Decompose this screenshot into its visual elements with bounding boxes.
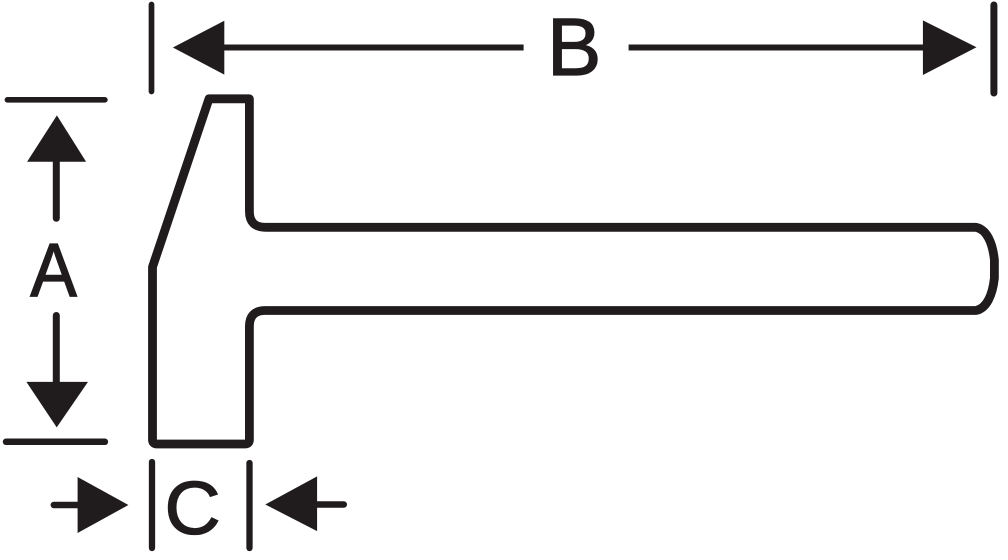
dim C: left arrowhead <box>78 477 129 533</box>
dim A: lower shaft <box>53 316 60 384</box>
dim A: upper shaft <box>53 160 60 218</box>
dim A: up arrowhead <box>27 115 86 161</box>
dim B: left arrowhead <box>173 21 224 75</box>
hammer outline <box>153 99 995 444</box>
svg-text:B: B <box>547 2 601 93</box>
dim B: left extension tick <box>149 5 155 92</box>
dim B: right extension tick <box>990 5 997 93</box>
dim C: left extension tick <box>149 462 155 548</box>
dim C: right extension tick <box>246 463 252 548</box>
dim B: right arrowhead <box>923 20 977 75</box>
dim B: leader line right segment <box>629 45 925 51</box>
dim A: down arrowhead <box>26 382 88 428</box>
dim C: left arrow shaft <box>54 502 80 509</box>
dim C: right arrow shaft <box>317 501 344 508</box>
svg-text:C: C <box>165 467 221 551</box>
dim A: top extension tick <box>7 97 105 103</box>
dim A: bottom extension tick <box>6 439 105 446</box>
dim B: leader line left segment <box>222 45 524 51</box>
svg-text:A: A <box>30 229 77 313</box>
dim C: right arrowhead <box>265 476 317 531</box>
